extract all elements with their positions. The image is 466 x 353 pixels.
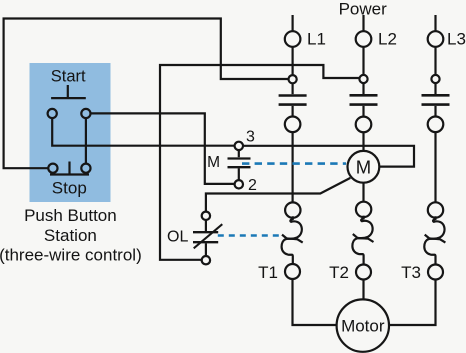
disconnect blades L3 bbox=[422, 95, 450, 104]
overload heater element L2 bbox=[352, 216, 373, 265]
wire: L3 blades to contact circle bbox=[434, 106, 436, 117]
aux contact node 3 bbox=[235, 142, 243, 150]
svg-text:M: M bbox=[356, 156, 371, 177]
OL bottom node bbox=[202, 256, 210, 264]
wire: OL bottom return to L2 tap bbox=[160, 65, 359, 260]
wire: start-left riser to node 3 (wire 3) bbox=[52, 118, 234, 146]
OL stub bottom bbox=[205, 243, 207, 256]
svg-text:L1: L1 bbox=[307, 29, 326, 48]
node: L3 tap bbox=[431, 75, 439, 83]
M auxiliary holding contact bbox=[228, 159, 251, 168]
terminal T2 bbox=[356, 265, 371, 280]
svg-text:2: 2 bbox=[248, 177, 257, 194]
motor bbox=[337, 299, 389, 351]
wire: L1 to disconnect bbox=[292, 83, 294, 94]
wire: L1 column top bbox=[292, 15, 294, 31]
svg-text:L3: L3 bbox=[447, 29, 466, 48]
contact terminal L2 bbox=[356, 117, 372, 133]
contact terminal L3 bbox=[428, 117, 444, 133]
svg-text:Station: Station bbox=[44, 226, 97, 245]
OL slash bbox=[194, 224, 223, 248]
OL top node bbox=[202, 212, 210, 220]
stop button contact terminal left bbox=[48, 164, 57, 173]
wire: L2 blades to contact circle bbox=[362, 106, 364, 117]
OL stub top bbox=[205, 220, 207, 231]
overload heater element L3 bbox=[424, 216, 445, 264]
wire: L1 blades to contact circle bbox=[292, 106, 294, 117]
node: L1 control tap bbox=[289, 75, 297, 83]
wire: L2 to M coil bbox=[362, 132, 364, 151]
svg-text:T1: T1 bbox=[258, 263, 278, 282]
svg-text:L2: L2 bbox=[378, 29, 397, 48]
disconnect blades L1 bbox=[279, 96, 307, 105]
start button contact terminal right bbox=[81, 109, 90, 118]
svg-text:Stop: Stop bbox=[52, 179, 87, 198]
wire: start-right to node 2 bbox=[91, 113, 235, 183]
push button station blue panel bbox=[30, 63, 111, 202]
wire: L1 column middle bbox=[292, 132, 294, 202]
svg-text:(three-wire control): (three-wire control) bbox=[0, 246, 142, 265]
wire: T1 to motor bbox=[293, 279, 337, 325]
terminal L1 bbox=[285, 31, 301, 47]
svg-text:M: M bbox=[207, 154, 220, 171]
svg-text:Start: Start bbox=[51, 68, 86, 86]
wire: node 3 to M coil right side bbox=[243, 146, 414, 167]
node: L2 control tap bbox=[359, 75, 367, 83]
start button actuator bbox=[51, 85, 86, 98]
svg-text:Push Button: Push Button bbox=[24, 206, 117, 225]
terminal T1 bbox=[285, 264, 300, 279]
wire: L3 to disconnect bbox=[434, 83, 436, 94]
dashed link OL to heater bbox=[218, 234, 283, 237]
svg-text:Motor: Motor bbox=[341, 317, 385, 336]
wire: T3 to motor bbox=[389, 280, 436, 326]
start button contact terminal left bbox=[48, 109, 57, 118]
wire: top-left control loop from L1 tap to stop button bbox=[4, 19, 289, 169]
OL NC contact bbox=[193, 232, 218, 242]
stop button contact terminal right bbox=[81, 164, 90, 173]
wire: L3 column top bbox=[434, 15, 436, 31]
contactor coil M bbox=[348, 151, 380, 183]
wire: M coil bottom diagonal to OL top bbox=[206, 178, 351, 212]
heater terminal L2 top bbox=[356, 202, 371, 217]
wire: T2 to motor bbox=[362, 280, 364, 300]
wire: L2 to disconnect bbox=[362, 83, 364, 94]
wire: L1 column upper bbox=[292, 47, 294, 75]
terminal L3 bbox=[428, 31, 444, 47]
terminal T3 bbox=[428, 265, 443, 280]
wire: M coil to heater bbox=[362, 183, 364, 202]
dashed link M aux to coil bbox=[242, 162, 346, 165]
aux contact stub top bbox=[238, 150, 240, 157]
overload heater element L1 bbox=[282, 216, 303, 264]
wire: L3 column middle bbox=[434, 132, 436, 202]
svg-text:3: 3 bbox=[246, 128, 255, 145]
heater terminal L3 top bbox=[428, 202, 443, 217]
aux contact stub bottom bbox=[238, 168, 240, 180]
svg-text:T2: T2 bbox=[329, 263, 349, 282]
svg-text:Power: Power bbox=[339, 0, 388, 19]
aux contact node 2 bbox=[235, 180, 243, 188]
wire: L3 column upper bbox=[434, 47, 436, 75]
contact terminal L1 bbox=[285, 117, 301, 133]
svg-text:OL: OL bbox=[167, 229, 188, 246]
wire: L2 column top bbox=[362, 15, 364, 31]
svg-text:T3: T3 bbox=[401, 263, 421, 282]
stop button actuator bbox=[50, 162, 89, 175]
wire: L2 column upper bbox=[362, 47, 364, 75]
wire: start-right riser down to stop-right bbox=[85, 118, 87, 164]
heater terminal L1 top bbox=[285, 202, 300, 217]
terminal L2 bbox=[356, 31, 372, 47]
disconnect blades L2 bbox=[350, 95, 378, 104]
